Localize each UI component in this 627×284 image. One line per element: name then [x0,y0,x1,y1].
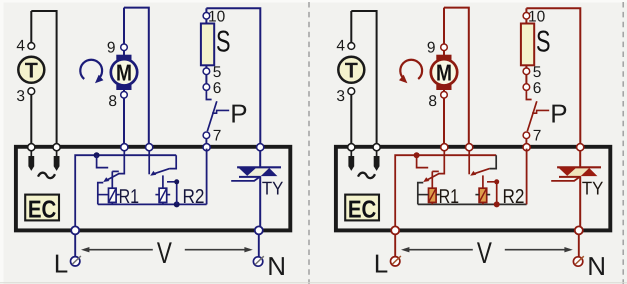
contact K1 fixed hook right [417,155,429,167]
box top terminal (motor loop) right [466,144,473,151]
terminal 5 left [203,68,210,75]
box bottom node N left [255,226,263,234]
terminal N right [573,257,582,266]
contact K1 blade left [106,174,119,181]
wire: switch branch inside box right [526,149,528,205]
junction dot bottom rail left [174,201,180,207]
label EC right [345,195,379,221]
wire: triac branch right [579,151,581,229]
contact K2 common wire right [468,151,470,175]
box top terminal (motor loop) left [146,144,153,151]
svg-text:6: 6 [533,80,542,97]
svg-text:5: 5 [213,64,222,81]
svg-text:P: P [230,99,247,129]
svg-text:4: 4 [336,38,345,55]
switch P left [206,91,211,100]
relay bottom rail left [98,203,207,205]
box top terminal (probe2) right [373,144,380,151]
terminal L left [71,257,80,266]
svg-text:8: 8 [428,93,437,110]
triac TY right [567,168,589,176]
wire: M loop left [124,8,149,146]
AC tilde right [358,173,375,178]
wire: switch branch inside box left [206,149,208,205]
box top terminal (motor) left [121,144,128,151]
wire to L left [74,234,76,256]
divider dashed line center [308,2,310,284]
wire to N right [578,234,580,256]
svg-text:9: 9 [107,39,116,56]
svg-text:S: S [216,26,231,59]
contact K1 blade right [426,174,439,181]
sensor S right [521,24,534,66]
thermostat T left [18,57,44,83]
wire: T loop left (black) [30,43,32,50]
box top terminal (switch branch) right [523,144,530,151]
probe electrode 2 right [376,151,378,157]
probe electrode 2 left [56,151,58,157]
motor M left [116,55,131,60]
terminal 8 left [121,92,128,99]
svg-text:8: 8 [108,93,117,110]
probe electrode 1 right [350,151,352,157]
contact K1 throw bracket left [98,183,104,205]
svg-text:R2: R2 [183,186,205,208]
box top terminal (switch branch) left [203,144,210,151]
wire: L feed rail left [75,155,176,228]
contact K2 feed hook left [170,155,177,168]
relay coil R2 left [162,175,164,188]
relay coil R2 right [482,175,484,188]
wire: L feed rail right [395,155,496,228]
box bottom node N right [575,226,583,234]
box top terminal (triac branch) right [577,144,584,151]
junction dot rail left [94,152,100,158]
sensor S left [201,24,214,66]
terminal 10 left [203,13,210,20]
AC tilde left [38,173,55,178]
motor M right [436,55,451,60]
box bottom node L right [391,226,399,234]
terminal 6 left [203,84,210,91]
contact K1 common wire left [118,151,124,174]
terminal 3 right [348,88,355,95]
svg-text:EC: EC [28,197,57,224]
svg-text:3: 3 [16,88,25,105]
svg-text:EC: EC [348,197,377,224]
svg-text:N: N [587,251,606,281]
voltage arrow V left [84,249,153,251]
svg-text:5: 5 [533,64,542,81]
contact K2 common wire left [148,151,150,175]
box top terminal (motor) right [441,144,448,151]
voltage arrow V right [404,249,473,251]
terminal 9 right [441,44,448,51]
box top terminal (probe1) right [348,144,355,151]
svg-text:7: 7 [213,128,222,145]
box bottom node L left [71,226,79,234]
bottom faint edge [0,282,627,284]
contact K1 fixed hook left [97,155,109,167]
svg-text:V: V [157,237,172,270]
rotation arrow right [400,60,422,79]
terminal 7 right [523,132,530,139]
svg-text:6: 6 [213,80,222,97]
svg-text:L: L [54,249,68,279]
controller box EC right [336,147,610,231]
terminal 10 right [523,13,530,20]
box top terminal (probe2) left [53,144,60,151]
contact K2 feed hook right [490,155,497,168]
svg-text:M: M [436,59,452,85]
wire: T loop right (black) [350,43,352,50]
relay bottom rail right [418,203,527,205]
terminal N left [253,257,262,266]
relay coil R1 left [111,171,113,188]
svg-text:T: T [345,58,358,82]
terminal 7 left [203,132,210,139]
wire: S loop right [526,8,580,145]
thermostat T right [338,57,364,83]
contact K1 common wire right [438,151,444,174]
terminal 9 left [121,44,128,51]
svg-text:TY: TY [582,178,604,199]
junction dot bottom rail right [494,201,500,207]
contact K2 blade left [152,169,170,175]
wire to N left [258,234,260,256]
svg-text:3: 3 [336,88,345,105]
terminal 4 right [348,43,355,50]
svg-text:M: M [116,59,132,85]
terminal 4 left [28,43,35,50]
box top terminal (probe1) left [28,144,35,151]
terminal 3 left [28,88,35,95]
svg-text:P: P [550,99,567,129]
coil R2 side hook left [167,182,177,205]
svg-text:7: 7 [533,128,542,145]
svg-text:L: L [374,249,388,279]
controller box EC left [16,147,290,231]
wire to L right [394,234,396,256]
terminal L right [391,257,400,266]
svg-text:R2: R2 [503,186,525,208]
box top terminal (triac branch) left [257,144,264,151]
svg-text:9: 9 [427,39,436,56]
label EC left [25,195,59,221]
rotation arrow left [80,60,102,79]
svg-text:TY: TY [262,178,284,199]
triac TY left [247,168,269,176]
wire: triac branch left [259,151,261,229]
svg-text:N: N [267,251,286,281]
probe electrode 1 left [30,151,32,157]
svg-text:R1: R1 [119,186,140,208]
contact K1 throw bracket right [418,183,424,205]
svg-text:4: 4 [16,38,25,55]
svg-text:R1: R1 [439,186,460,208]
relay coil R1 right [431,171,433,188]
terminal 6 right [523,84,530,91]
svg-text:T: T [25,58,38,82]
terminal 5 right [523,68,530,75]
contact K2 blade right [472,169,490,175]
svg-text:V: V [477,237,492,270]
coil R2 side hook right [487,182,497,205]
wire: M loop right [444,8,469,146]
switch P right [526,91,531,100]
svg-text:S: S [536,26,551,59]
wire: S loop left [206,8,260,145]
divider dashed line right edge [622,2,624,284]
terminal 8 right [441,92,448,99]
junction dot rail right [414,152,420,158]
